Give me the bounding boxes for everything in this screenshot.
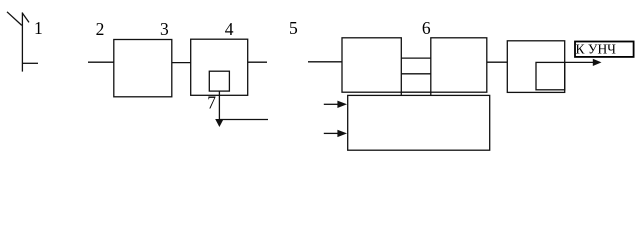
tick 6b left edge to tall box: [430, 92, 432, 95]
inner box 7 (heterodyne oscillator) inside box 4: [209, 71, 229, 91]
inner box of detector (shares right edge): [536, 62, 565, 89]
connector rung lower between 6a and 6b: [401, 73, 431, 75]
box 6b (IF amplifier right box): [431, 38, 487, 92]
wire 2 input to box 3: [88, 61, 114, 63]
wire down from oscillator box: [218, 91, 220, 119]
box 4 (mixer block): [191, 39, 248, 95]
svg-text:5: 5: [289, 18, 298, 38]
svg-text:К УНЧ: К УНЧ: [576, 41, 617, 56]
svg-text:1: 1: [34, 18, 43, 38]
antenna 1 vertical mast: [21, 12, 23, 71]
arrowhead down (oscillator output): [215, 119, 223, 127]
wire 5 output of box 4: [248, 61, 267, 63]
box 3 (RF amplifier block): [114, 40, 172, 97]
output arrowhead right: [593, 59, 602, 66]
box C (detector block): [507, 41, 564, 93]
connector rung upper between 6a and 6b: [401, 57, 431, 59]
tick 6a right edge to tall box: [400, 92, 402, 95]
svg-text:4: 4: [225, 19, 234, 39]
box 6a (IF amplifier left box): [342, 38, 401, 92]
wire 6b to box C: [487, 61, 508, 63]
svg-text:2: 2: [96, 19, 105, 39]
arrow input 2 head: [337, 130, 347, 137]
wire into block 6: [308, 61, 342, 63]
tall box (power/control unit under block 6): [348, 95, 490, 150]
svg-text:7: 7: [207, 93, 216, 113]
wire between box 3 and box 4: [172, 62, 191, 64]
K UNCH label box: [575, 42, 634, 57]
antenna 1 right diagonal stroke: [22, 13, 29, 22]
svg-text:3: 3: [160, 19, 169, 39]
arrow input 1 head: [337, 101, 347, 108]
arrow input 2 wire: [324, 132, 339, 134]
horizontal wire from oscillator arrow: [220, 119, 268, 121]
connector rung bottom between 6a and 6b: [401, 91, 431, 93]
svg-text:6: 6: [422, 18, 431, 38]
antenna 1 left diagonal stroke: [7, 12, 22, 26]
output wire to AF amplifier: [565, 61, 594, 63]
antenna 1 horizontal tap wire: [22, 62, 38, 64]
arrow input 1 wire: [324, 103, 339, 105]
